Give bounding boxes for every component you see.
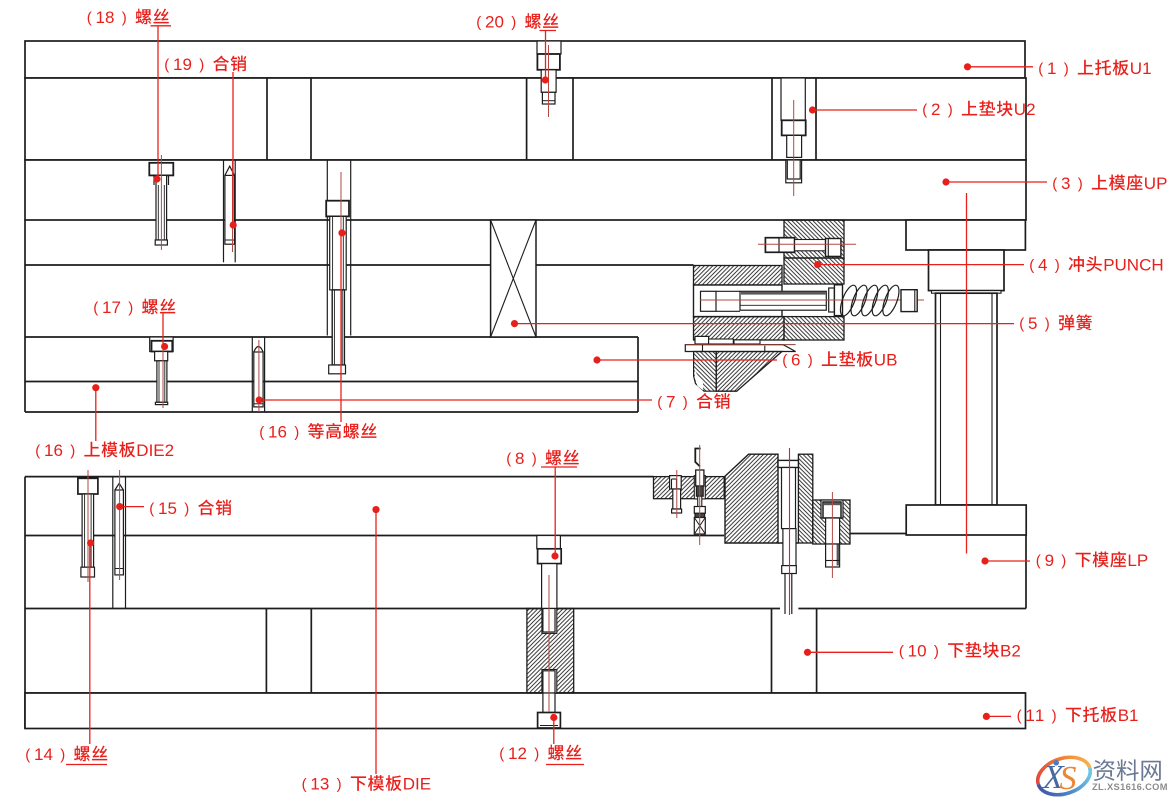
svg-text:): ) [122, 9, 127, 26]
svg-text:(: ( [259, 424, 264, 441]
svg-text:5: 5 [1028, 314, 1037, 333]
svg-text:(: ( [302, 776, 307, 793]
svg-text:DIE: DIE [403, 775, 431, 794]
svg-text:(: ( [782, 352, 787, 369]
svg-text:2: 2 [485, 12, 494, 31]
svg-text:): ) [1061, 552, 1066, 569]
svg-text:1: 1 [1047, 59, 1056, 78]
svg-text:): ) [934, 643, 939, 660]
svg-text:UP: UP [1144, 174, 1168, 193]
svg-text:DIE2: DIE2 [136, 441, 174, 460]
svg-text:6: 6 [277, 422, 286, 441]
svg-text:1: 1 [173, 55, 182, 74]
svg-text:9: 9 [182, 55, 191, 74]
svg-text:(: ( [149, 500, 154, 517]
svg-text:1: 1 [508, 744, 517, 763]
svg-text:1: 1 [95, 8, 104, 27]
svg-text:(: ( [1017, 707, 1022, 724]
svg-text:(: ( [922, 101, 927, 118]
svg-text:): ) [1055, 257, 1060, 274]
svg-text:8: 8 [105, 8, 114, 27]
svg-text:): ) [128, 299, 133, 316]
svg-text:6: 6 [53, 441, 62, 460]
svg-text:S: S [1060, 760, 1077, 797]
svg-text:1: 1 [1025, 706, 1034, 725]
svg-text:3: 3 [1061, 174, 1070, 193]
svg-text:9: 9 [1045, 551, 1054, 570]
svg-text:8: 8 [515, 449, 524, 468]
svg-text:): ) [1052, 707, 1057, 724]
svg-text:): ) [808, 352, 813, 369]
svg-text:(: ( [1038, 60, 1043, 77]
svg-text:UB: UB [874, 350, 898, 369]
svg-text:(: ( [35, 442, 40, 459]
svg-text:0: 0 [494, 12, 503, 31]
svg-text:): ) [534, 745, 539, 762]
svg-text:1: 1 [44, 441, 53, 460]
svg-text:ZL.XS1616.COM: ZL.XS1616.COM [1092, 782, 1168, 792]
svg-text:(: ( [899, 643, 904, 660]
svg-text:1: 1 [1035, 706, 1044, 725]
svg-text:0: 0 [917, 641, 926, 660]
svg-text:1: 1 [268, 422, 277, 441]
svg-text:(: ( [657, 394, 662, 411]
svg-text:2: 2 [517, 744, 526, 763]
svg-text:(: ( [1019, 315, 1024, 332]
svg-text:): ) [337, 776, 342, 793]
svg-text:4: 4 [43, 745, 52, 764]
svg-text:(: ( [1036, 552, 1041, 569]
svg-text:): ) [184, 500, 189, 517]
svg-text:(: ( [1052, 175, 1057, 192]
svg-text:(: ( [93, 299, 98, 316]
svg-text:B2: B2 [1000, 641, 1021, 660]
svg-text:(: ( [499, 745, 504, 762]
svg-text:6: 6 [791, 350, 800, 369]
svg-text:): ) [1045, 315, 1050, 332]
svg-text:): ) [199, 56, 204, 73]
svg-text:): ) [60, 746, 65, 763]
svg-text:(: ( [87, 9, 92, 26]
svg-text:): ) [1064, 60, 1069, 77]
svg-text:): ) [70, 442, 75, 459]
svg-text:U1: U1 [1130, 59, 1152, 78]
svg-text:(: ( [476, 14, 481, 31]
svg-text:4: 4 [1038, 255, 1047, 274]
svg-text:U2: U2 [1014, 100, 1036, 119]
svg-text:(: ( [506, 450, 511, 467]
svg-text:): ) [294, 424, 299, 441]
svg-text:): ) [1078, 175, 1083, 192]
svg-text:LP: LP [1127, 551, 1148, 570]
svg-text:): ) [683, 394, 688, 411]
svg-text:7: 7 [666, 392, 675, 411]
svg-text:(: ( [164, 56, 169, 73]
svg-text:1: 1 [310, 775, 319, 794]
svg-text:(: ( [1029, 257, 1034, 274]
svg-text:5: 5 [167, 499, 176, 518]
svg-text:): ) [532, 450, 537, 467]
svg-text:2: 2 [931, 100, 940, 119]
svg-text:1: 1 [158, 499, 167, 518]
svg-text:3: 3 [320, 775, 329, 794]
svg-text:1: 1 [908, 641, 917, 660]
svg-text:): ) [948, 101, 953, 118]
svg-text:1: 1 [34, 745, 43, 764]
svg-text:): ) [511, 14, 516, 31]
svg-text:B1: B1 [1118, 706, 1139, 725]
svg-text:(: ( [25, 746, 30, 763]
svg-text:7: 7 [111, 298, 120, 317]
svg-text:1: 1 [102, 298, 111, 317]
svg-text:PUNCH: PUNCH [1103, 255, 1163, 274]
